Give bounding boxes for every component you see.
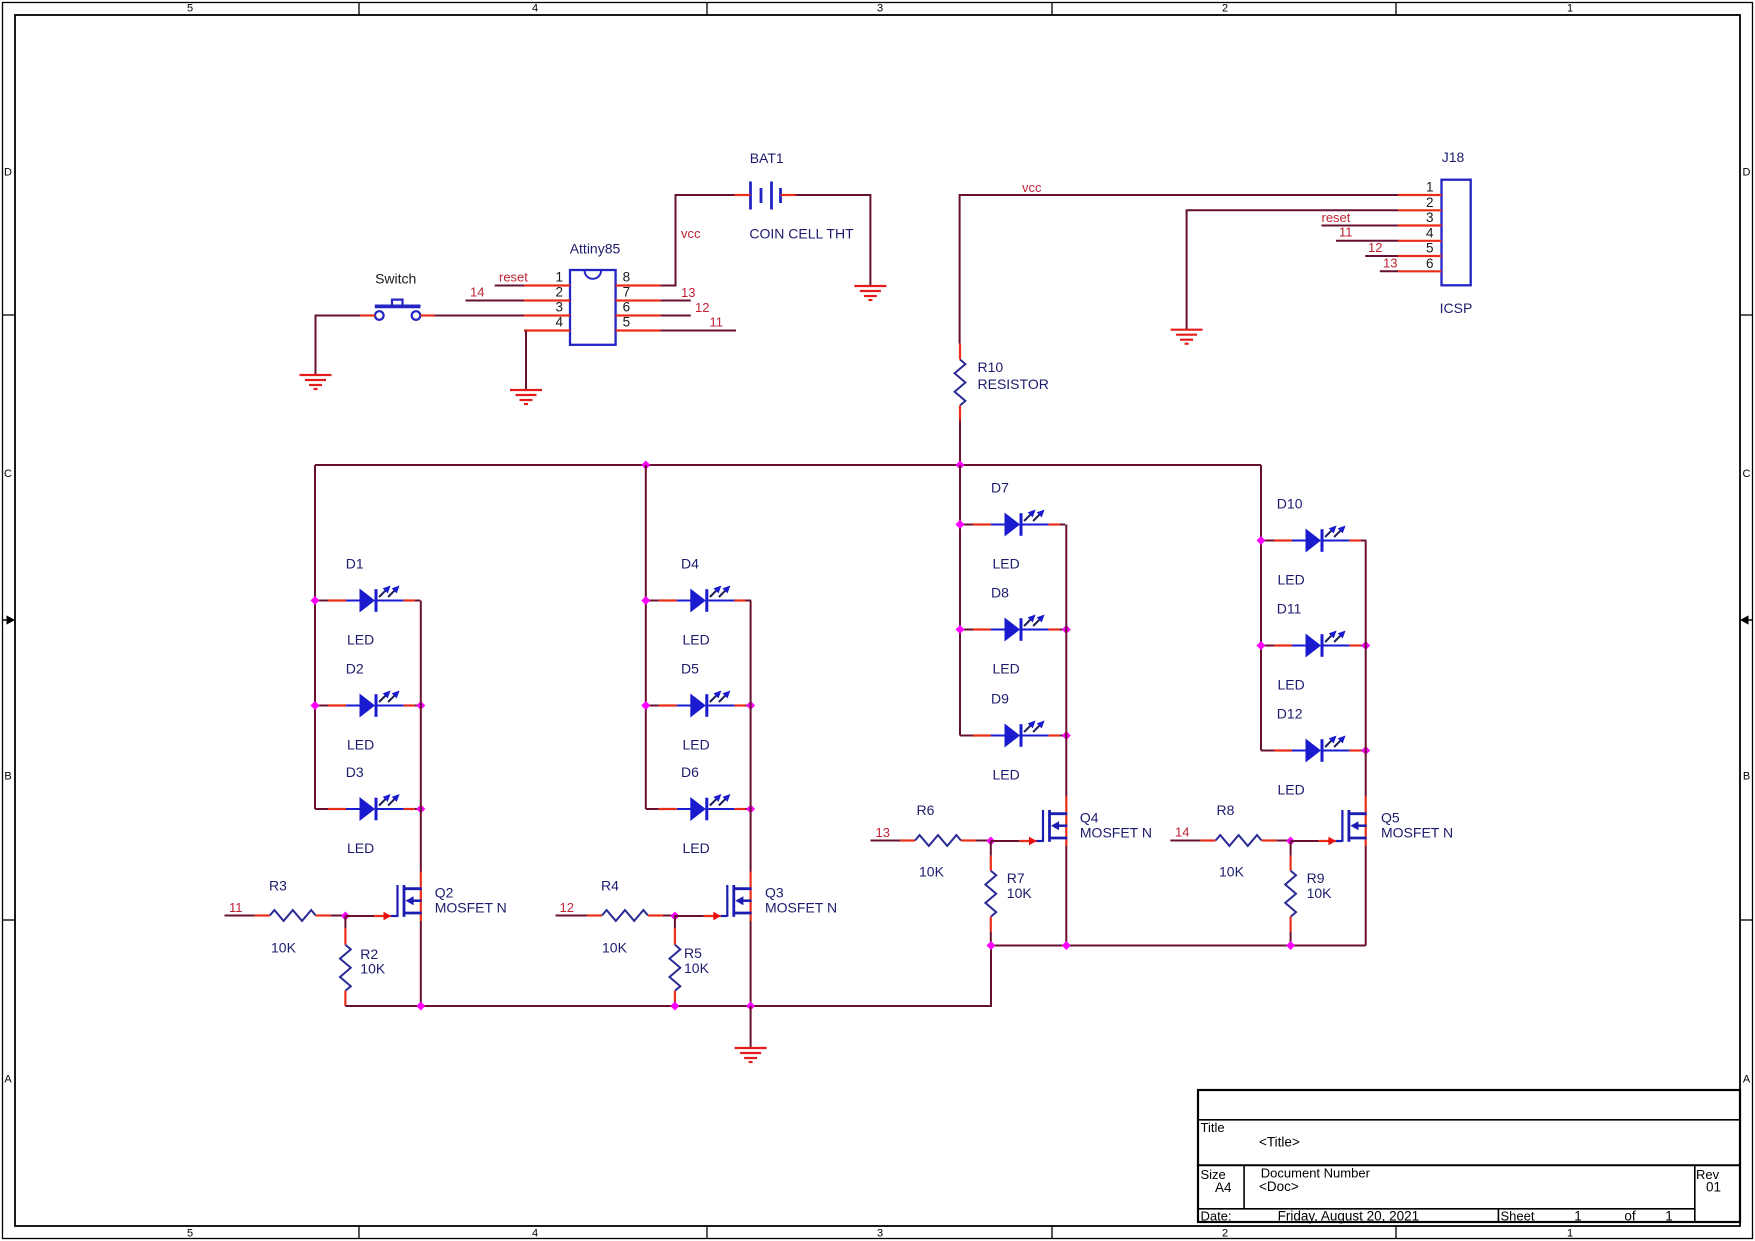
net label 11 at U1 xyxy=(710,315,724,330)
value label MOSFET N of Q4 xyxy=(1080,824,1152,840)
svg-text:11: 11 xyxy=(1339,225,1353,240)
svg-text:LED: LED xyxy=(993,556,1020,572)
svg-text:D9: D9 xyxy=(991,691,1009,707)
junction ground rail at R5 xyxy=(670,1002,679,1011)
junction left column D8 xyxy=(956,625,965,634)
pushbutton switch xyxy=(360,300,434,320)
svg-text:Q4: Q4 xyxy=(1080,810,1099,826)
label D4 xyxy=(681,556,699,572)
resistor R8 xyxy=(1201,835,1277,846)
LED D7 xyxy=(960,510,1065,537)
junction left column D10 xyxy=(1257,536,1266,545)
svg-text:R3: R3 xyxy=(269,878,287,894)
value label MOSFET N of Q3 xyxy=(765,899,837,915)
svg-text:of: of xyxy=(1624,1209,1636,1224)
label J18 xyxy=(1442,149,1465,165)
value label 10K of R9 xyxy=(1307,885,1333,901)
net label vcc at battery xyxy=(681,226,701,241)
wire ground rail xyxy=(345,946,991,1007)
label R4 xyxy=(601,878,619,894)
wire Q5 source to source rail xyxy=(1365,846,1367,946)
net label 14 at U1 xyxy=(470,285,484,300)
svg-text:BAT1: BAT1 xyxy=(750,150,784,166)
svg-text:A: A xyxy=(4,1074,12,1086)
wire U1 pin 4 to ground xyxy=(525,331,527,391)
value label COIN CELL THT xyxy=(749,226,854,242)
svg-text:13: 13 xyxy=(1383,256,1397,271)
svg-text:2: 2 xyxy=(555,285,563,300)
junction Q5 gate node xyxy=(1286,837,1295,846)
svg-text:13: 13 xyxy=(681,285,695,300)
transistor Q3 xyxy=(704,872,752,922)
label Switch xyxy=(375,270,416,286)
LED D8 xyxy=(960,615,1065,642)
wire R7 to source rail xyxy=(990,932,992,946)
ground at main rail xyxy=(735,1048,767,1062)
value label 10K of R5 xyxy=(684,960,710,976)
svg-text:MOSFET N: MOSFET N xyxy=(765,899,837,915)
label R2 xyxy=(360,946,378,962)
label D5 xyxy=(681,661,699,677)
svg-text:LED: LED xyxy=(683,737,710,753)
label D6 xyxy=(681,764,699,780)
resistor R5 xyxy=(670,928,681,1006)
svg-text:LED: LED xyxy=(993,661,1020,677)
wire net 12 into R4 xyxy=(556,915,588,917)
svg-text:reset: reset xyxy=(499,270,528,285)
svg-text:6: 6 xyxy=(623,300,631,315)
svg-text:11: 11 xyxy=(710,315,724,330)
label R8 xyxy=(1217,802,1235,818)
junction left column D7 xyxy=(956,520,965,529)
junction rail at D4 column xyxy=(641,461,650,470)
svg-text:10K: 10K xyxy=(1219,864,1245,880)
wire rail drop and cathode column at x=315 xyxy=(314,465,316,809)
wire Q4 source to source rail xyxy=(1065,846,1067,946)
junction right column D3 xyxy=(416,805,425,814)
LED D4 xyxy=(646,586,751,613)
resistor R2 xyxy=(340,928,351,1006)
svg-text:6: 6 xyxy=(1426,256,1434,271)
svg-text:C: C xyxy=(4,468,12,480)
wire net 13 into R6 xyxy=(871,840,901,842)
net label 14 at R8 xyxy=(1175,825,1189,840)
label D12 xyxy=(1277,706,1303,722)
svg-text:4: 4 xyxy=(532,1228,538,1240)
svg-text:Friday, August 20, 2021: Friday, August 20, 2021 xyxy=(1278,1209,1420,1224)
wire gate node to R2 xyxy=(344,916,346,928)
wire D10 string anode column to Q5 drain xyxy=(1365,541,1367,797)
label D7 xyxy=(991,480,1009,496)
svg-text:D7: D7 xyxy=(991,480,1009,496)
svg-text:Attiny85: Attiny85 xyxy=(570,241,621,257)
svg-text:14: 14 xyxy=(1175,825,1189,840)
junction right column D11 xyxy=(1361,641,1370,650)
ground at J18 pin 2 xyxy=(1171,330,1203,344)
pin number labels J18 xyxy=(1426,180,1434,271)
svg-text:MOSFET N: MOSFET N xyxy=(435,899,507,915)
label R9 xyxy=(1307,870,1325,886)
value label LED of D11 xyxy=(1278,677,1305,693)
svg-text:5: 5 xyxy=(187,3,193,15)
wire source rail Q4 Q5 xyxy=(991,945,1366,947)
value label MOSFET N of Q2 xyxy=(435,899,507,915)
resistor R7 xyxy=(985,856,996,932)
junction rail at R10 xyxy=(956,461,965,470)
svg-text:vcc: vcc xyxy=(681,226,701,241)
value label LED of D3 xyxy=(347,840,374,856)
svg-text:COIN CELL THT: COIN CELL THT xyxy=(749,226,854,242)
svg-text:5: 5 xyxy=(623,315,631,330)
wire net 11 into R3 xyxy=(225,915,255,917)
battery BAT1 coin cell symbol xyxy=(735,182,796,210)
svg-text:D11: D11 xyxy=(1277,601,1302,617)
resistor R4 xyxy=(587,910,663,921)
junction left column D1 xyxy=(311,596,320,605)
svg-text:B: B xyxy=(4,771,11,783)
LED D10 xyxy=(1261,526,1366,553)
wire R4 to Q3 gate node xyxy=(663,915,675,917)
resistor R3 xyxy=(255,910,331,921)
svg-text:<Title>: <Title> xyxy=(1259,1135,1300,1150)
svg-text:R6: R6 xyxy=(917,802,935,818)
label R7 xyxy=(1007,870,1025,886)
resistor R6 xyxy=(900,835,976,846)
svg-text:1: 1 xyxy=(1567,1228,1573,1240)
value label 10K of R8 xyxy=(1219,864,1245,880)
svg-text:7: 7 xyxy=(623,285,631,300)
wire battery minus to ground corner xyxy=(796,195,871,286)
wire gate node to R5 xyxy=(674,916,676,928)
junction right column D6 xyxy=(746,805,755,814)
svg-text:J18: J18 xyxy=(1442,149,1465,165)
junction left column D4 xyxy=(641,596,650,605)
wire gate node to Q4 gate xyxy=(991,840,1020,842)
svg-text:1: 1 xyxy=(1426,180,1434,195)
LED D9 xyxy=(960,721,1065,748)
wire D1 string anode column to Q2 drain xyxy=(420,601,422,872)
label R3 xyxy=(269,878,287,894)
svg-text:D: D xyxy=(4,167,12,179)
junction right column D2 xyxy=(416,701,425,710)
wire switch left to ground xyxy=(316,316,361,376)
svg-text:4: 4 xyxy=(555,315,563,330)
value label LED of D10 xyxy=(1278,572,1305,588)
svg-text:Q2: Q2 xyxy=(435,885,454,901)
wire rail drop and cathode column at x=1261 xyxy=(1260,465,1262,751)
svg-text:12: 12 xyxy=(695,300,709,315)
net label 11 at J18 xyxy=(1339,225,1353,240)
wire gate node to R9 xyxy=(1290,841,1292,856)
label D3 xyxy=(346,764,364,780)
wire R9 to source rail xyxy=(1290,932,1292,946)
svg-text:A4: A4 xyxy=(1215,1180,1232,1195)
svg-text:reset: reset xyxy=(1322,210,1351,225)
label Q5 xyxy=(1381,810,1400,826)
wire R6 to Q4 gate node xyxy=(976,840,991,842)
label R10 xyxy=(978,359,1004,375)
LED D1 xyxy=(315,586,420,613)
net label 12 at U1 xyxy=(695,300,709,315)
label Q3 xyxy=(765,885,784,901)
svg-text:3: 3 xyxy=(1426,210,1434,225)
wire gate node to Q5 gate xyxy=(1291,840,1319,842)
label D1 xyxy=(346,556,364,572)
svg-text:B: B xyxy=(1743,771,1750,783)
label Q2 xyxy=(435,885,454,901)
resistor R9 xyxy=(1285,856,1296,932)
wire anode supply rail xyxy=(315,464,1261,466)
wire reset net at U1 pin 1 xyxy=(495,285,524,287)
junction left column D5 xyxy=(641,701,650,710)
net label 13 at J18 xyxy=(1383,256,1397,271)
svg-text:1: 1 xyxy=(555,270,563,285)
transistor Q5 xyxy=(1319,797,1367,847)
junction right column D9 xyxy=(1062,731,1071,740)
junction left column D11 xyxy=(1257,641,1266,650)
svg-text:3: 3 xyxy=(877,3,883,15)
svg-text:LED: LED xyxy=(1278,782,1305,798)
value label LED of D9 xyxy=(993,767,1020,783)
svg-text:MOSFET N: MOSFET N xyxy=(1381,824,1453,840)
value label LED of D12 xyxy=(1278,782,1305,798)
label ICSP xyxy=(1440,300,1473,316)
wire switch right to U1 pin 3 xyxy=(435,315,525,317)
svg-text:R8: R8 xyxy=(1217,802,1235,818)
wire Q3 source to ground rail xyxy=(750,921,752,1006)
wire battery plus to vcc corner down to U1 pin 8 xyxy=(660,195,734,286)
net label 13 at U1 xyxy=(681,285,695,300)
value label 10K of R6 xyxy=(919,864,945,880)
svg-text:D2: D2 xyxy=(346,661,364,677)
svg-text:LED: LED xyxy=(683,632,710,648)
svg-text:1: 1 xyxy=(1574,1209,1582,1224)
svg-text:MOSFET N: MOSFET N xyxy=(1080,824,1152,840)
transistor Q4 xyxy=(1019,797,1067,847)
wire Q2 source to ground rail xyxy=(420,921,422,1006)
wire rail drop and cathode column at x=645.8 xyxy=(645,465,647,809)
label D9 xyxy=(991,691,1009,707)
value label LED of D1 xyxy=(347,632,374,648)
net label 12 at J18 xyxy=(1368,240,1382,255)
svg-text:3: 3 xyxy=(877,1228,883,1240)
label D8 xyxy=(991,585,1009,601)
value label LED of D2 xyxy=(347,737,374,753)
transistor Q2 xyxy=(374,872,422,922)
svg-text:2: 2 xyxy=(1222,3,1228,15)
value label 10K of R4 xyxy=(602,940,628,956)
value label 10K of R2 xyxy=(360,961,386,977)
pin number labels U1 xyxy=(555,270,630,330)
svg-text:LED: LED xyxy=(347,737,374,753)
wire rail drop and cathode column at x=960 xyxy=(959,465,961,736)
label Attiny85 xyxy=(570,241,621,257)
svg-text:Q3: Q3 xyxy=(765,885,784,901)
junction right column D12 xyxy=(1361,746,1370,755)
wire J18 pin 2 to ground xyxy=(1187,210,1398,329)
label D11 xyxy=(1277,601,1302,617)
svg-text:12: 12 xyxy=(1368,240,1382,255)
LED D3 xyxy=(315,794,420,821)
wire net 12 at U1 pin 6 xyxy=(660,315,690,317)
LED D6 xyxy=(646,794,751,821)
svg-text:2: 2 xyxy=(1426,195,1434,210)
svg-text:LED: LED xyxy=(347,840,374,856)
svg-text:<Doc>: <Doc> xyxy=(1259,1179,1299,1194)
wire net 13 at J18 pin 6 xyxy=(1380,270,1398,272)
svg-text:10K: 10K xyxy=(602,940,628,956)
svg-text:3: 3 xyxy=(555,300,563,315)
svg-text:R9: R9 xyxy=(1307,870,1325,886)
label D10 xyxy=(1277,496,1303,512)
value label RESISTOR xyxy=(978,376,1049,392)
svg-text:LED: LED xyxy=(683,840,710,856)
wire net 12 at J18 pin 5 xyxy=(1365,255,1398,257)
net label 13 at R6 xyxy=(876,825,890,840)
label Q4 xyxy=(1080,810,1099,826)
svg-text:1: 1 xyxy=(1665,1209,1673,1224)
ground at switch xyxy=(300,375,332,389)
value label 10K of R7 xyxy=(1007,885,1033,901)
svg-text:5: 5 xyxy=(1426,241,1434,256)
value label LED of D8 xyxy=(993,661,1020,677)
wire net 14 into R8 xyxy=(1170,840,1200,842)
svg-text:vcc: vcc xyxy=(1022,180,1042,195)
svg-text:LED: LED xyxy=(1278,677,1305,693)
value label LED of D4 xyxy=(683,632,710,648)
svg-text:D8: D8 xyxy=(991,585,1009,601)
svg-text:Q5: Q5 xyxy=(1381,810,1400,826)
svg-text:LED: LED xyxy=(347,632,374,648)
svg-text:13: 13 xyxy=(876,825,890,840)
title block xyxy=(1198,1090,1740,1224)
svg-text:D10: D10 xyxy=(1277,496,1303,512)
svg-text:D1: D1 xyxy=(346,556,364,572)
net label reset at U1 xyxy=(499,270,528,285)
svg-text:Sheet: Sheet xyxy=(1501,1209,1535,1224)
svg-text:10K: 10K xyxy=(684,960,710,976)
svg-text:D: D xyxy=(1743,167,1751,179)
LED D11 xyxy=(1261,631,1366,658)
svg-text:D4: D4 xyxy=(681,556,699,572)
value label LED of D6 xyxy=(683,840,710,856)
svg-text:4: 4 xyxy=(1426,225,1434,240)
svg-text:RESISTOR: RESISTOR xyxy=(978,376,1049,392)
wire D7 string anode column to Q4 drain xyxy=(1065,525,1067,797)
LED D2 xyxy=(315,691,420,718)
junction source rail at R7 xyxy=(987,941,996,950)
label D2 xyxy=(346,661,364,677)
svg-text:1: 1 xyxy=(1567,3,1573,15)
svg-text:10K: 10K xyxy=(1007,885,1033,901)
LED D5 xyxy=(646,691,751,718)
svg-text:10K: 10K xyxy=(919,864,945,880)
resistor R10 xyxy=(955,344,966,421)
svg-text:10K: 10K xyxy=(360,961,386,977)
junction left column D2 xyxy=(311,701,320,710)
svg-text:A: A xyxy=(1743,1074,1751,1086)
junction Q3 gate node xyxy=(670,912,679,921)
wire D4 string anode column to Q3 drain xyxy=(750,601,752,872)
label R6 xyxy=(917,802,935,818)
ground at U1 pin 4 xyxy=(510,390,542,404)
svg-text:D6: D6 xyxy=(681,764,699,780)
svg-text:Switch: Switch xyxy=(375,270,416,286)
value label LED of D7 xyxy=(993,556,1020,572)
junction source rail at R9 xyxy=(1286,941,1295,950)
wire net 11 at J18 pin 4 xyxy=(1336,240,1398,242)
junction ground rail at Q2 source xyxy=(416,1002,425,1011)
svg-text:4: 4 xyxy=(532,3,538,15)
svg-text:10K: 10K xyxy=(1307,885,1333,901)
svg-text:R10: R10 xyxy=(978,359,1004,375)
wire R10 bottom to rail xyxy=(959,421,961,466)
svg-text:R4: R4 xyxy=(601,878,619,894)
IC U1 Attiny85 xyxy=(524,270,660,345)
svg-text:5: 5 xyxy=(187,1228,193,1240)
net label vcc at J18 xyxy=(1022,180,1042,195)
wire R3 to Q2 gate node xyxy=(331,915,346,917)
ground at battery minus xyxy=(854,286,886,300)
net label 12 at R4 xyxy=(560,900,574,915)
wire net 11 at U1 pin 5 xyxy=(660,330,736,332)
svg-text:10K: 10K xyxy=(271,940,297,956)
value label LED of D5 xyxy=(683,737,710,753)
svg-text:Date:: Date: xyxy=(1201,1209,1232,1224)
svg-text:R7: R7 xyxy=(1007,870,1025,886)
wire ground rail to ground symbol xyxy=(750,1006,752,1048)
net label reset at J18 xyxy=(1322,210,1351,225)
wire gate node to Q2 gate xyxy=(345,915,374,917)
svg-text:R5: R5 xyxy=(684,945,702,961)
value label MOSFET N of Q5 xyxy=(1381,824,1453,840)
svg-text:01: 01 xyxy=(1706,1180,1721,1195)
svg-text:8: 8 xyxy=(623,270,631,285)
wire vcc net from R10 top to J18 pin 1 xyxy=(960,195,1398,344)
net label 11 at R3 xyxy=(229,900,243,915)
wire R8 to Q5 gate node xyxy=(1277,840,1291,842)
svg-text:LED: LED xyxy=(1278,572,1305,588)
label BAT1 xyxy=(750,150,784,166)
svg-text:ICSP: ICSP xyxy=(1440,300,1473,316)
wire gate node to Q3 gate xyxy=(675,915,704,917)
svg-text:D12: D12 xyxy=(1277,706,1303,722)
svg-text:LED: LED xyxy=(993,767,1020,783)
junction Q2 gate node xyxy=(341,912,350,921)
wire net 13 at U1 pin 7 xyxy=(660,300,690,302)
connector J18 ICSP xyxy=(1398,180,1471,286)
junction right column D5 xyxy=(746,701,755,710)
wire reset net at J18 pin 3 xyxy=(1321,225,1398,227)
junction right column D8 xyxy=(1062,625,1071,634)
junction source rail at Q4 source xyxy=(1062,941,1071,950)
svg-text:12: 12 xyxy=(560,900,574,915)
junction Q4 gate node xyxy=(986,837,995,846)
svg-text:11: 11 xyxy=(229,900,243,915)
wire gate node to R7 xyxy=(990,841,992,856)
value label 10K of R3 xyxy=(271,940,297,956)
wire net 14 at U1 pin 2 xyxy=(466,300,525,302)
label R5 xyxy=(684,945,702,961)
svg-text:D5: D5 xyxy=(681,661,699,677)
junction ground rail at Q3 source and ground xyxy=(746,1002,755,1011)
svg-text:Title: Title xyxy=(1201,1120,1225,1135)
svg-text:C: C xyxy=(1743,468,1751,480)
svg-text:14: 14 xyxy=(470,285,484,300)
LED D12 xyxy=(1261,736,1366,763)
svg-text:2: 2 xyxy=(1222,1228,1228,1240)
svg-text:D3: D3 xyxy=(346,764,364,780)
